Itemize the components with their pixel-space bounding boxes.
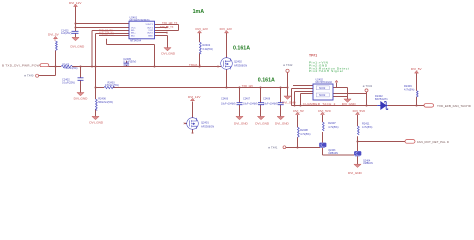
svg-text:R2411: R2411 [362, 122, 370, 126]
svg-text:DVI_12V: DVI_12V [188, 95, 201, 99]
svg-text:4.7k(5%): 4.7k(5%) [328, 125, 339, 129]
svg-text:0.1uF(50V): 0.1uF(50V) [123, 60, 136, 64]
svg-text:DVI_GND: DVI_GND [282, 100, 297, 104]
svg-text:B TXD_DVI_PWR_POW: B TXD_DVI_PWR_POW [2, 63, 40, 67]
svg-text:DVI_GND: DVI_GND [234, 121, 249, 125]
svg-text:C2406: C2406 [221, 98, 229, 101]
svg-text:IN1+: IN1+ [131, 33, 136, 35]
svg-text:DVI_5V: DVI_5V [293, 109, 305, 113]
svg-text:DVI_5V: DVI_5V [48, 33, 60, 37]
svg-text:0.1uF(25V): 0.1uF(25V) [62, 81, 75, 85]
svg-text:TXD_12V: TXD_12V [242, 84, 254, 88]
svg-text:560ohm(5%): 560ohm(5%) [98, 100, 113, 104]
svg-text:TP#1: TP#1 [309, 54, 317, 58]
svg-text:DVI_GND: DVI_GND [348, 171, 363, 175]
svg-text:Q2401: Q2401 [201, 120, 209, 124]
svg-text:4.7k(5%): 4.7k(5%) [300, 132, 311, 136]
svg-text:OUT2: OUT2 [147, 33, 154, 35]
svg-text:AP2306GN: AP2306GN [201, 125, 214, 129]
svg-text:DVI_5V0: DVI_5V0 [353, 109, 366, 113]
svg-text:IN2-: IN2- [131, 35, 135, 37]
svg-text:VOUT1: VOUT1 [146, 24, 154, 26]
svg-text:R2407: R2407 [328, 121, 336, 125]
svg-text:4.7k(5%): 4.7k(5%) [404, 88, 415, 92]
svg-text:⊕ TX42: ⊕ TX42 [283, 63, 293, 67]
svg-text:DVI_GND: DVI_GND [342, 102, 357, 106]
svg-text:VCC: VCC [131, 27, 136, 29]
svg-text:SC02: SC02 [319, 94, 326, 97]
svg-text:CHAMBER_TACH_2: CHAMBER_TACH_2 [303, 102, 336, 106]
svg-text:DVI_GND: DVI_GND [275, 121, 290, 125]
svg-text:R2408: R2408 [300, 128, 308, 132]
svg-text:DVI_GND: DVI_GND [74, 96, 89, 100]
svg-text:DVI_5V0: DVI_5V0 [318, 109, 331, 113]
svg-text:470ohm(5%): 470ohm(5%) [105, 84, 119, 87]
svg-text:OUT1: OUT1 [147, 27, 154, 29]
svg-text:MC34072ADR2G: MC34072ADR2G [130, 18, 150, 22]
svg-text:R2406: R2406 [98, 97, 106, 101]
svg-text:C2408: C2408 [263, 98, 271, 101]
svg-text:BAT54HT1: BAT54HT1 [375, 97, 388, 101]
svg-text:⊕ TX40: ⊕ TX40 [24, 73, 34, 77]
svg-text:10uF+104(M): 10uF+104(M) [263, 103, 278, 106]
svg-text:⊕ TX43: ⊕ TX43 [363, 84, 373, 88]
svg-text:TXD_12F_TX: TXD_12F_TX [99, 33, 114, 36]
svg-text:FAN_ROT_DET_PAL: FAN_ROT_DET_PAL [417, 140, 446, 144]
svg-text:TXD2A_G: TXD2A_G [189, 63, 201, 67]
svg-text:UMB10N: UMB10N [328, 152, 338, 155]
svg-text:DVI_GND: DVI_GND [255, 121, 270, 125]
svg-text:0.161A: 0.161A [258, 77, 275, 83]
svg-text:UMB10N: UMB10N [363, 162, 373, 165]
svg-text:DVI_12V: DVI_12V [196, 27, 209, 31]
svg-text:0.161A: 0.161A [233, 46, 250, 52]
svg-text:TXD_5F_TX: TXD_5F_TX [160, 26, 174, 29]
svg-text:DVI_5V: DVI_5V [411, 67, 423, 71]
svg-text:D: D [469, 104, 471, 108]
svg-text:DVI_12V: DVI_12V [220, 27, 233, 31]
svg-text:⊕ TX41: ⊕ TX41 [268, 146, 278, 150]
svg-text:DVI_GND: DVI_GND [161, 51, 176, 55]
svg-text:6.2k(5%): 6.2k(5%) [203, 47, 214, 51]
svg-text:DVI_12V: DVI_12V [69, 1, 82, 5]
svg-text:C2407: C2407 [243, 98, 251, 101]
svg-text:GND: GND [148, 35, 153, 37]
svg-text:DVI_GND: DVI_GND [89, 121, 104, 125]
svg-text:DVI_GND: DVI_GND [71, 44, 86, 48]
svg-text:1mA: 1mA [193, 9, 205, 15]
svg-text:Pin4:TACH Signal: Pin4:TACH Signal [309, 69, 343, 73]
svg-text:AP2306GN: AP2306GN [234, 63, 247, 67]
svg-text:10uF+104(M): 10uF+104(M) [221, 103, 236, 106]
svg-text:1uF(25V): 1uF(25V) [61, 32, 72, 35]
svg-text:4.7k(5%): 4.7k(5%) [362, 125, 373, 129]
svg-text:750ohm(5%): 750ohm(5%) [64, 67, 78, 70]
svg-text:TXD_EFB_FAN_TACH: TXD_EFB_FAN_TACH [437, 104, 469, 108]
svg-text:R2402: R2402 [203, 43, 211, 47]
svg-text:10uF+104(M): 10uF+104(M) [243, 103, 258, 106]
svg-text:SC02: SC02 [319, 87, 326, 90]
svg-text:TXD_12F_TX: TXD_12F_TX [162, 22, 178, 25]
svg-text:IN1-: IN1- [131, 30, 135, 32]
svg-text:Q2402: Q2402 [234, 60, 242, 64]
svg-text:MT34GA4: MT34GA4 [130, 39, 142, 42]
svg-text:VO2: VO2 [148, 30, 153, 32]
svg-text:D: D [447, 140, 449, 144]
svg-text:MC74HC1G02: MC74HC1G02 [316, 81, 333, 84]
